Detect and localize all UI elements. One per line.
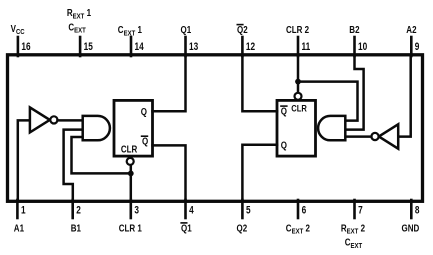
- svg-text:6: 6: [302, 204, 307, 216]
- svg-text:REXT 2: REXT 2: [341, 223, 365, 236]
- svg-text:GND: GND: [402, 223, 420, 234]
- wire Q1 output to pin 13: [153, 56, 186, 111]
- block 1 label Q̄: [142, 136, 149, 147]
- inverter U2A: [379, 124, 398, 148]
- svg-text:9: 9: [415, 41, 420, 53]
- node CLR1 junction: [128, 171, 134, 177]
- svg-text:Q2: Q2: [237, 223, 248, 234]
- svg-text:2: 2: [76, 204, 81, 216]
- svg-text:15: 15: [84, 41, 94, 53]
- svg-text:3: 3: [134, 204, 139, 216]
- svg-text:A2: A2: [406, 24, 416, 35]
- IC package outline: [8, 55, 423, 202]
- wire A2 to inverter: [399, 56, 411, 137]
- svg-text:14: 14: [135, 41, 145, 53]
- svg-text:12: 12: [246, 41, 255, 53]
- node CLR2 junction: [295, 79, 301, 85]
- svg-text:Q: Q: [141, 106, 147, 117]
- svg-text:Q1: Q1: [181, 223, 192, 234]
- pin 6 CEXT2: [286, 200, 310, 236]
- one-shot block 2: [277, 100, 316, 156]
- pin 8 GND: [402, 200, 420, 234]
- inverter U2A bubble: [371, 133, 378, 140]
- svg-text:Q: Q: [142, 136, 148, 147]
- wire B1 to AND1: [64, 130, 82, 200]
- svg-text:Q2: Q2: [237, 24, 248, 35]
- wire A1 to inverter: [18, 120, 29, 200]
- pin 4 Q̄1: [181, 200, 194, 234]
- wire CLR2 branch to AND2: [298, 82, 358, 121]
- svg-text:1: 1: [21, 204, 26, 216]
- svg-text:4: 4: [189, 204, 194, 216]
- wire Q̄1 output to pin 4: [153, 145, 186, 200]
- svg-text:CLR 1: CLR 1: [119, 223, 142, 234]
- svg-text:Q1: Q1: [181, 24, 192, 35]
- svg-text:Q: Q: [281, 140, 287, 151]
- svg-text:CEXT 2: CEXT 2: [286, 223, 310, 236]
- svg-text:B1: B1: [71, 223, 81, 234]
- svg-text:8: 8: [415, 204, 420, 216]
- pin 3 CLR1: [119, 200, 142, 234]
- pin 5 Q2: [237, 200, 252, 234]
- svg-text:CEXT: CEXT: [345, 237, 363, 250]
- pin 2 B1: [71, 200, 81, 234]
- wire Q̄2 output to pin 12: [242, 56, 277, 111]
- svg-text:CLR 2: CLR 2: [286, 24, 309, 35]
- svg-text:16: 16: [21, 41, 30, 53]
- wire CLR2 pin: [297, 56, 300, 93]
- svg-text:11: 11: [302, 41, 311, 53]
- svg-text:CEXT: CEXT: [68, 22, 86, 35]
- wire inverter to AND2: [346, 135, 371, 138]
- pin 1 A1: [14, 200, 26, 234]
- pin 16 VCC: [11, 23, 31, 56]
- pin 7 REXT2/CEXT: [341, 200, 365, 250]
- pin 10 B2: [349, 24, 367, 56]
- block 1 CLR bubble: [127, 158, 134, 165]
- svg-text:Q: Q: [281, 105, 287, 116]
- one-shot block 1: [114, 100, 153, 156]
- block 2 CLR bubble: [295, 93, 302, 100]
- wire CLR1 pin: [130, 165, 133, 200]
- block 1 label CLR: [121, 144, 138, 155]
- wire CLR1 branch to AND1: [72, 137, 131, 173]
- AND gate 2: [318, 116, 345, 140]
- svg-text:CLR: CLR: [121, 144, 138, 155]
- wire inverter to AND1: [58, 119, 83, 122]
- svg-text:B2: B2: [349, 24, 359, 35]
- block 1 label Q: [141, 106, 147, 117]
- svg-text:A1: A1: [14, 223, 24, 234]
- pin 15 REXT1/CEXT: [67, 7, 94, 56]
- svg-text:5: 5: [246, 204, 251, 216]
- svg-text:CLR: CLR: [291, 102, 307, 113]
- AND gate 1: [83, 116, 110, 140]
- pin 13 Q1: [181, 24, 199, 56]
- svg-text:CEXT 1: CEXT 1: [118, 24, 142, 37]
- svg-text:7: 7: [358, 204, 363, 216]
- svg-text:13: 13: [189, 41, 198, 53]
- pin 11 CLR2: [286, 24, 311, 56]
- pin 12 Q̄2: [237, 24, 255, 56]
- inverter U1A bubble: [50, 116, 57, 123]
- svg-text:REXT 1: REXT 1: [67, 7, 91, 20]
- svg-text:10: 10: [358, 41, 367, 53]
- pin 14 CEXT1: [118, 24, 145, 56]
- inverter U1A: [30, 107, 50, 132]
- block 2 label Q: [281, 140, 287, 151]
- wire B2 to AND2: [346, 56, 364, 130]
- wire Q2 output to pin 5: [242, 145, 277, 200]
- svg-text:VCC: VCC: [11, 23, 25, 36]
- pin 9 A2: [406, 24, 419, 56]
- block 2 label CLR: [291, 102, 307, 113]
- block 2 label Q̄: [281, 105, 287, 116]
